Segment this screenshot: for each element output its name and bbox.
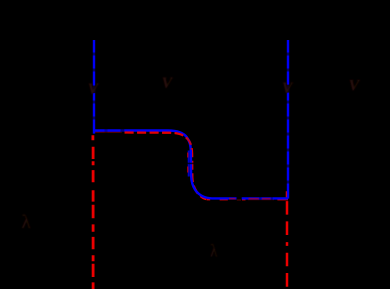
svg-text:λ: λ — [22, 212, 32, 233]
svg-text:V: V — [88, 81, 100, 98]
svg-text:V: V — [282, 80, 294, 97]
svg-text:λ: λ — [210, 240, 217, 261]
svg-text:V: V — [162, 75, 174, 92]
svg-text:V: V — [349, 78, 361, 95]
